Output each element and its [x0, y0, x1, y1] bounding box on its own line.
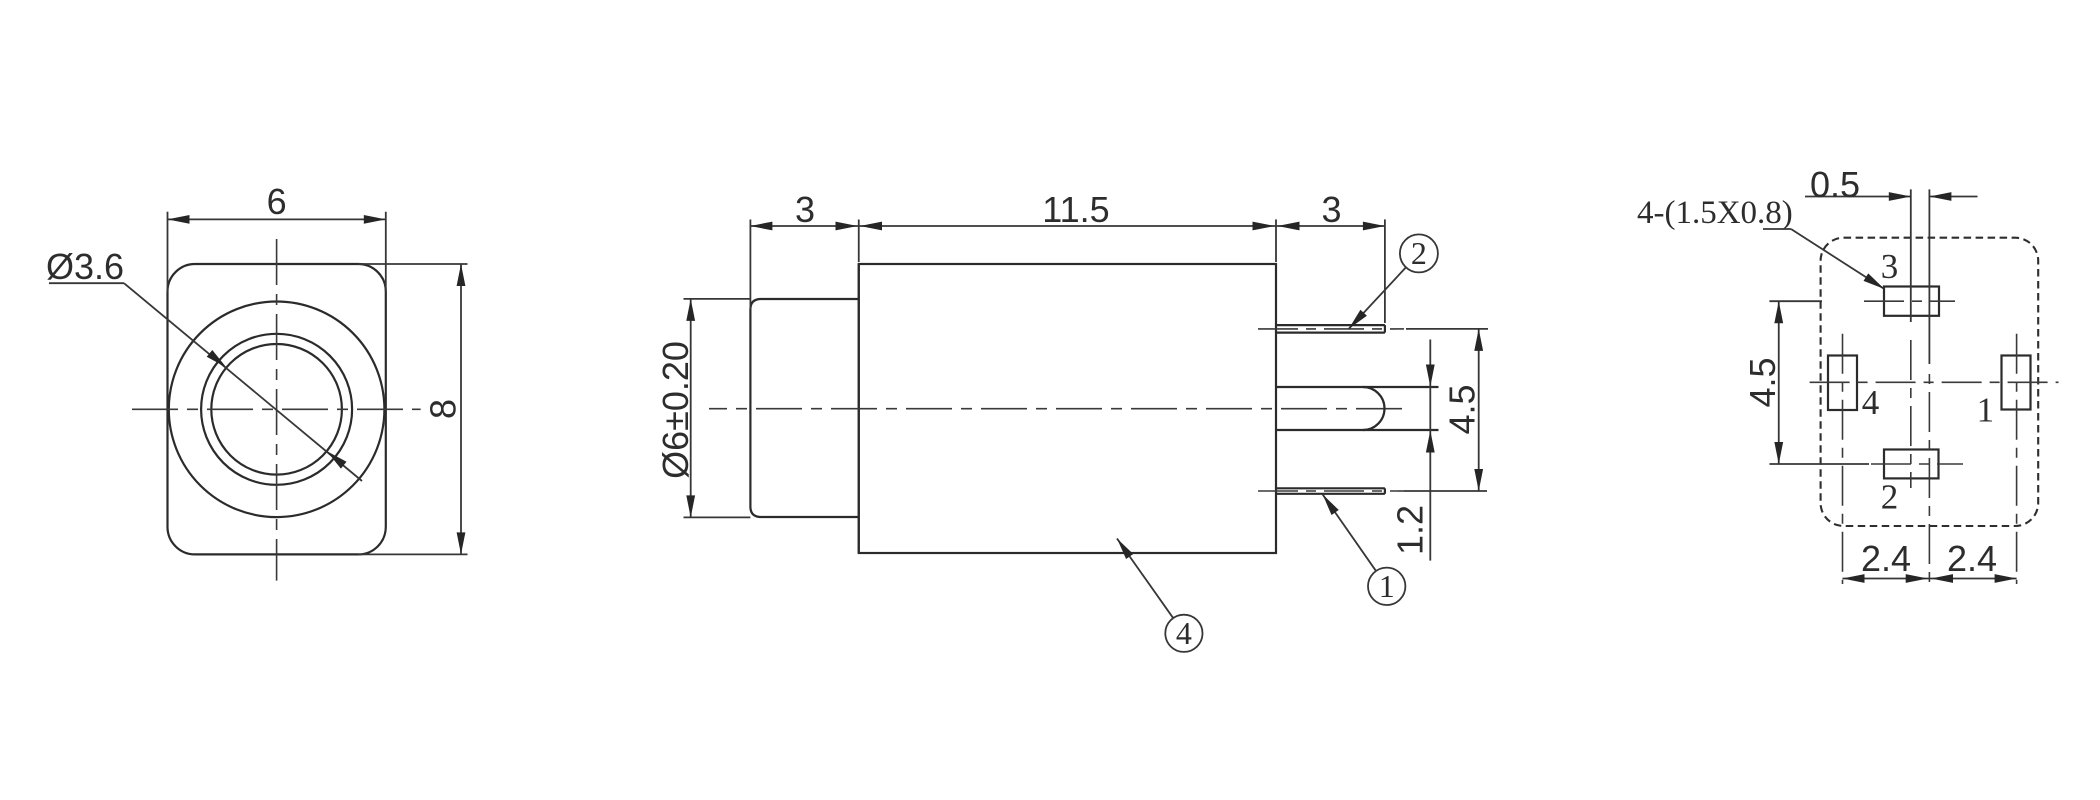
footprint horizontal centerline	[1804, 381, 2059, 383]
dimension diam 6 +-0.20 (barrel)	[655, 299, 751, 518]
svg-text:4-(1.5X0.8): 4-(1.5X0.8)	[1637, 195, 1793, 231]
svg-text:11.5: 11.5	[1042, 189, 1109, 230]
svg-text:2: 2	[1881, 477, 1899, 516]
pad 1 vertical centerline	[2016, 334, 2018, 584]
middle ring circle	[201, 334, 352, 485]
housing front outline (rounded rectangle 6x8)	[168, 264, 386, 554]
svg-text:4.5: 4.5	[1441, 384, 1482, 434]
callout circle 2	[1345, 234, 1437, 331]
svg-text:1.2: 1.2	[1389, 505, 1430, 555]
dimension 11.5 (body length)	[859, 189, 1276, 230]
main body rectangle	[859, 264, 1276, 553]
svg-text:6: 6	[267, 181, 287, 222]
dimension 4.5 (pad row pitch, footprint)	[1742, 301, 1869, 464]
callout circle 1	[1319, 492, 1405, 605]
outer bushing circle	[169, 302, 385, 518]
dimension 4.5 (pin pitch, side view)	[1404, 329, 1488, 491]
top pin centerline	[1258, 328, 1404, 330]
pad 3 horizontal centerline	[1864, 300, 1955, 302]
dimension 8 (height)	[358, 264, 468, 554]
main horizontal centerline	[709, 408, 1402, 410]
dimension 0.5 (column offset)	[1805, 164, 1978, 205]
dimension 1.2 (slot width)	[1389, 340, 1434, 561]
inner hole circle (diam 3.6)	[211, 344, 342, 475]
footprint outline (dashed rounded rect)	[1821, 238, 2039, 526]
svg-text:1: 1	[1379, 568, 1395, 604]
svg-text:Ø3.6: Ø3.6	[46, 246, 124, 287]
svg-text:8: 8	[423, 399, 464, 419]
barrel (threaded bushing, rounded left corners)	[750, 299, 858, 517]
pad 1 (right)	[2002, 356, 2031, 410]
svg-text:3: 3	[1881, 247, 1899, 286]
vertical centerline of front view	[276, 239, 278, 581]
svg-text:2.4: 2.4	[1861, 538, 1911, 579]
svg-text:4: 4	[1176, 615, 1192, 651]
dimension diam 3.6 with leader	[46, 246, 362, 481]
svg-text:3: 3	[1321, 189, 1341, 230]
svg-text:3: 3	[795, 189, 815, 230]
pad 2 (bottom)	[1884, 450, 1939, 479]
bottom pin	[1276, 488, 1385, 494]
center contact slot	[1276, 387, 1439, 430]
dimension 2.4 / 2.4 (pad column spacing)	[1843, 538, 2017, 583]
dimension 6 (width)	[168, 181, 386, 292]
bottom pin centerline	[1258, 490, 1404, 492]
pad 3 (top)	[1884, 287, 1939, 316]
svg-text:2: 2	[1411, 235, 1427, 271]
svg-text:Ø6±0.20: Ø6±0.20	[655, 341, 696, 479]
dimension 3 (barrel length)	[750, 189, 858, 310]
pad 4 (left)	[1828, 356, 1857, 411]
svg-text:4.5: 4.5	[1742, 357, 1783, 407]
pads 3/2 column centerline	[1910, 189, 1912, 322]
svg-text:2.4: 2.4	[1947, 538, 1997, 579]
pad 2 horizontal centerline	[1871, 463, 1963, 465]
pad 4 vertical centerline	[1842, 334, 1844, 584]
dimension 3 (pin length)	[1276, 189, 1385, 323]
horizontal centerline of front view	[132, 408, 421, 410]
top pin	[1276, 325, 1385, 333]
svg-text:0.5: 0.5	[1810, 164, 1860, 205]
svg-text:1: 1	[1977, 390, 1995, 429]
label 4-(1.5X0.8) with leader	[1637, 195, 1887, 293]
callout circle 4	[1113, 536, 1202, 652]
barrel/body boundary edge	[858, 264, 860, 553]
footprint vertical centerline	[1928, 189, 1930, 364]
svg-text:4: 4	[1862, 383, 1880, 422]
